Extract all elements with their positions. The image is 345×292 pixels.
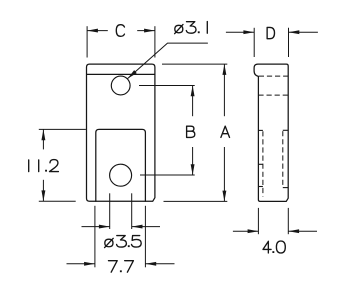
C extension line right bbox=[154, 26, 156, 57]
Ø3.5 dimension arrow line left bbox=[82, 226, 110, 228]
11.2 arrowhead bottom bbox=[41, 190, 45, 201]
side view boss step left top bbox=[258, 129, 263, 131]
side view hidden line (face edge) bbox=[259, 75, 288, 77]
C dimension line right segment bbox=[137, 30, 155, 32]
side view hidden line (top hole lower edge) bbox=[258, 94, 288, 96]
7.7 extension line right bbox=[144, 206, 146, 267]
D dimension arrow line left bbox=[226, 31, 254, 33]
11.2 dimension line upper segment bbox=[42, 129, 44, 149]
side view hole upper tick left bbox=[258, 163, 263, 165]
4.0 dimension arrow line left bbox=[233, 230, 259, 232]
C arrowhead right bbox=[144, 29, 155, 33]
side view hole lower tick left bbox=[258, 186, 263, 188]
D extension line right bbox=[288, 28, 290, 57]
side view groove bottom edge right bbox=[283, 187, 288, 189]
D extension line left bbox=[253, 28, 255, 57]
A dimension line lower segment bbox=[223, 147, 225, 201]
front face edge line bbox=[87, 73, 155, 75]
Ø3.5 dimension arrow line right bbox=[132, 226, 160, 228]
label "C" bbox=[116, 25, 124, 37]
label "D" bbox=[267, 27, 274, 38]
B dimension line lower segment bbox=[192, 147, 194, 175]
Ø3.5 arrowhead left bbox=[99, 225, 110, 229]
7.7 dimension arrow line right bbox=[145, 263, 174, 265]
B dimension line upper segment bbox=[192, 86, 194, 117]
A extension line bottom bbox=[164, 200, 228, 202]
side view hidden boss edge left bbox=[262, 131, 264, 196]
B arrowhead bottom bbox=[191, 164, 195, 175]
D dimension arrow line right bbox=[289, 31, 318, 33]
C arrowhead left bbox=[87, 29, 98, 33]
B extension line top (from top hole center) bbox=[139, 85, 195, 87]
A dimension line upper segment bbox=[223, 64, 225, 116]
label "ø3.5" bbox=[105, 236, 142, 248]
11.2 extension line top bbox=[39, 128, 86, 130]
4.0 dimension arrow line right bbox=[288, 230, 317, 232]
front view body outline bbox=[87, 64, 155, 201]
label "4.0" bbox=[263, 241, 285, 253]
label "ø3.1" bbox=[175, 22, 208, 34]
label "A" bbox=[221, 126, 230, 137]
D arrowhead left bbox=[243, 30, 254, 34]
A arrowhead bottom bbox=[222, 191, 226, 202]
Ø3.5 extension line right bbox=[131, 193, 133, 229]
A arrowhead top bbox=[222, 64, 226, 75]
4.0 extension line left bbox=[257, 208, 259, 234]
bottom hole Ø3.5 bbox=[110, 164, 132, 186]
7.7 arrowhead left bbox=[84, 262, 95, 266]
C dimension line left segment bbox=[87, 30, 108, 32]
side view groove top edge right bbox=[283, 129, 288, 131]
Ø3.1 leader arrowhead bbox=[127, 70, 136, 79]
Ø3.5 arrowhead right bbox=[132, 225, 143, 229]
label "11.2" bbox=[29, 160, 59, 172]
B extension line bottom (from bottom hole center) bbox=[140, 174, 195, 176]
4.0 extension line right bbox=[287, 208, 289, 234]
7.7 arrowhead right bbox=[145, 262, 156, 266]
front boss (inner slot) outline bbox=[96, 129, 146, 201]
7.7 extension line left bbox=[94, 206, 96, 267]
label "B" bbox=[187, 126, 195, 137]
side view outline with top lip bbox=[254, 64, 288, 201]
11.2 dimension line lower segment bbox=[42, 180, 44, 201]
top hole Ø3.1 bbox=[111, 76, 130, 95]
11.2 arrowhead top bbox=[41, 129, 45, 140]
side view hidden groove edge right bbox=[282, 131, 284, 188]
4.0 arrowhead left bbox=[248, 229, 259, 233]
A extension line top bbox=[162, 63, 227, 65]
7.7 dimension arrow line left bbox=[67, 263, 95, 265]
label "7.7" bbox=[108, 261, 133, 273]
B arrowhead top bbox=[191, 86, 195, 97]
11.2 extension line bottom bbox=[39, 200, 76, 202]
C extension line left bbox=[86, 26, 88, 57]
Ø3.5 extension line left bbox=[109, 193, 111, 229]
D arrowhead right bbox=[289, 30, 300, 34]
Ø3.1 leader line bbox=[127, 43, 207, 79]
4.0 arrowhead right bbox=[288, 229, 299, 233]
